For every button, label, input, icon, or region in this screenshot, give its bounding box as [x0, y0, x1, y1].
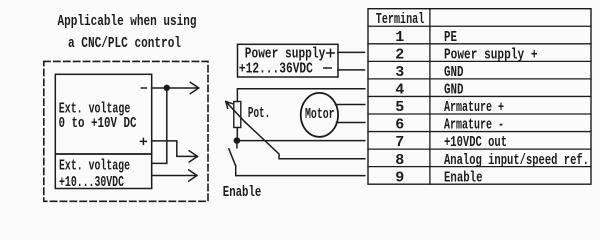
motor M1 body — [301, 93, 338, 137]
terminal table row lines — [368, 26, 591, 166]
svg-text:Enable: Enable — [444, 169, 483, 186]
svg-text:5: 5 — [395, 99, 404, 116]
wire N1 to B2 — [152, 88, 167, 163]
ext voltage source B2 box — [55, 154, 151, 189]
arrow A3 head — [189, 170, 197, 181]
svg-text:0 to +10V DC: 0 to +10V DC — [59, 115, 137, 132]
svg-text:GND: GND — [444, 64, 464, 81]
arrow A1 head — [190, 82, 198, 93]
junction node N1 — [164, 85, 170, 91]
svg-text:Armature -: Armature - — [444, 117, 504, 134]
svg-text:Analog input/speed ref.: Analog input/speed ref. — [444, 152, 589, 169]
wire B2 out — [152, 175, 197, 177]
svg-text:Applicable when using: Applicable when using — [58, 13, 197, 30]
svg-text:Power supply +: Power supply + — [444, 47, 538, 64]
wire PS1 plus to terminal 2 — [338, 51, 365, 53]
svg-text:4: 4 — [395, 82, 404, 99]
wire M1 armature minus to terminal 6 — [337, 122, 365, 124]
wire R1 bottom to node N2 — [236, 128, 238, 141]
switch S1 fixed stub — [236, 141, 238, 148]
terminal table frame — [368, 9, 591, 185]
svg-text:9: 9 — [395, 169, 404, 186]
svg-text:Motor: Motor — [305, 106, 335, 123]
terminal table column divider — [429, 9, 431, 185]
switch S1 blade — [229, 149, 236, 166]
svg-text:+12...36VDC: +12...36VDC — [239, 61, 313, 78]
wire S1 to terminal 9 — [236, 166, 365, 176]
B1 plus terminal label — [140, 138, 146, 144]
svg-text:+10...30VDC: +10...30VDC — [59, 174, 124, 191]
wire M1 armature plus to terminal 5 — [336, 104, 365, 106]
svg-text:+10VDC out: +10VDC out — [444, 134, 507, 151]
svg-text:Armature +: Armature + — [444, 99, 504, 116]
wire B1 minus out — [152, 87, 198, 89]
svg-text:GND: GND — [444, 82, 464, 99]
svg-text:8: 8 — [395, 152, 404, 169]
svg-text:7: 7 — [395, 134, 404, 151]
svg-text:Enable: Enable — [223, 184, 261, 201]
PS1 plus terminal label — [327, 49, 334, 56]
svg-text:3: 3 — [395, 64, 404, 81]
potentiometer R1 arrow — [226, 102, 246, 123]
arrow A2 head — [189, 151, 197, 162]
power supply PS1 box — [238, 44, 339, 77]
wire B1 plus out — [152, 141, 197, 157]
svg-text:2: 2 — [395, 47, 404, 64]
svg-text:Pot.: Pot. — [248, 105, 270, 122]
svg-text:a CNC/PLC control: a CNC/PLC control — [68, 35, 181, 52]
svg-text:Ext. voltage: Ext. voltage — [59, 158, 130, 175]
svg-text:1: 1 — [395, 29, 404, 46]
junction node N2 — [234, 137, 241, 144]
PS1 minus terminal label — [324, 67, 331, 69]
svg-text:Terminal: Terminal — [376, 11, 425, 28]
dashed option enclosure — [44, 61, 208, 201]
svg-text:PE: PE — [444, 29, 457, 46]
wire R1 wiper to terminal 8 — [245, 122, 365, 159]
potentiometer R1 body — [234, 102, 241, 128]
wire N2 to terminal 7 — [237, 140, 365, 142]
wire PS1 minus to terminal 3 — [338, 69, 365, 71]
ext voltage source B1 box — [55, 74, 151, 154]
wire pot top to terminal 4 — [237, 89, 364, 102]
svg-text:6: 6 — [395, 117, 404, 134]
B1 minus terminal label — [141, 87, 146, 89]
